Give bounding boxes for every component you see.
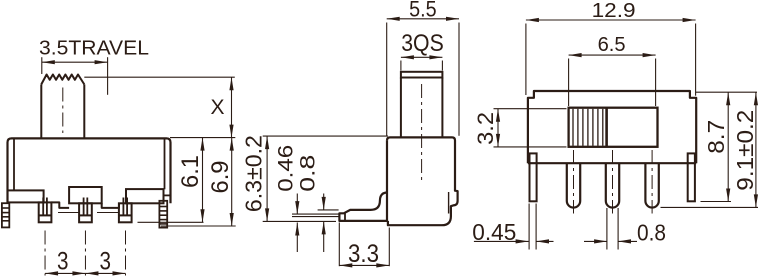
svg-text:0.46: 0.46 [274, 145, 297, 192]
svg-text:3: 3 [99, 247, 111, 275]
svg-text:6.5: 6.5 [598, 34, 626, 56]
svg-text:3.5TRAVEL: 3.5TRAVEL [39, 37, 149, 59]
svg-text:3QS: 3QS [401, 30, 444, 57]
svg-text:0.8: 0.8 [297, 155, 320, 192]
svg-text:3.3: 3.3 [348, 240, 379, 268]
svg-text:12.9: 12.9 [592, 0, 636, 22]
svg-text:0.8: 0.8 [637, 219, 666, 245]
svg-text:3.2: 3.2 [473, 112, 498, 145]
svg-text:6.1: 6.1 [177, 155, 204, 188]
svg-text:3: 3 [57, 247, 69, 275]
svg-text:6.3±0.2: 6.3±0.2 [240, 135, 266, 212]
svg-text:8.7: 8.7 [703, 120, 729, 154]
svg-text:6.9: 6.9 [207, 161, 234, 194]
svg-text:X: X [210, 96, 224, 119]
svg-text:9.1±0.2: 9.1±0.2 [732, 110, 758, 191]
